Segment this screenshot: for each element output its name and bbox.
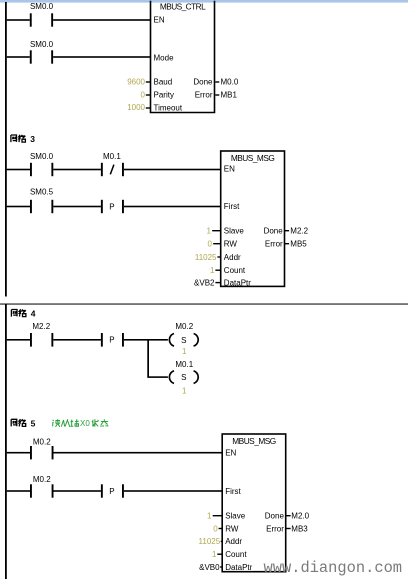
svg-text:SM0.0: SM0.0 [30,2,54,11]
wire rail to M0.2 rung1 [7,452,30,454]
wire rail to SM0.5 [7,206,30,208]
svg-text:M0.0: M0.0 [221,78,239,87]
value 0 on RW [208,240,221,249]
network comment 读从站X0状态 (green) [52,419,108,428]
pin Timeout [154,103,183,112]
wire branch to coil M0.2 [149,339,168,341]
output M2.2 on Done [285,227,309,236]
NC contact M0.1 [101,152,124,176]
svg-text:Slave: Slave [225,512,246,521]
pin Count [224,266,246,275]
wire M0.2 to P [54,490,101,492]
wire rail to SM0.0 contact rung2 [7,56,30,58]
svg-text:MBUS_CTRL: MBUS_CTRL [160,2,206,12]
contact M2.2 [30,322,53,347]
svg-text:M0.2: M0.2 [33,437,51,446]
value 1 on Count [212,550,222,559]
watermark www.diangon.com [264,559,403,577]
pin EN [225,448,236,457]
output M2.0 on Done [286,512,310,521]
pin Done [193,78,213,87]
pin Baud [154,78,173,87]
wire rail to M0.2 rung2 [7,490,30,492]
network label 网络 5 [11,419,35,429]
svg-text:RW: RW [224,240,238,249]
pin DataPtr [225,563,252,572]
output MB3 on Error [286,524,308,533]
top selection strip [0,0,408,3]
svg-text:1: 1 [210,266,215,275]
output MB1 on Error [215,91,237,100]
svg-text:EN: EN [224,165,235,174]
pin RW [224,240,238,249]
wire M0.1 to MBUS_MSG EN [124,169,221,171]
wire P to branch [124,339,148,341]
value 1 below coil M0.2 [182,347,187,356]
pin Mode [154,53,175,62]
svg-text:MBUS_MSG: MBUS_MSG [231,153,275,163]
pin EN [224,165,235,174]
svg-text:M0.2: M0.2 [33,475,51,484]
svg-text:Slave: Slave [224,227,245,236]
value &VB2 on DataPtr [194,278,221,287]
value 9600 on Baud [127,78,150,87]
svg-text:SM0.5: SM0.5 [30,188,54,197]
pin DataPtr [224,278,251,287]
svg-text:11025: 11025 [195,253,217,262]
svg-text:M0.2: M0.2 [175,322,193,331]
svg-text:Addr: Addr [225,537,242,546]
svg-text:1: 1 [212,550,217,559]
svg-text:Mode: Mode [154,53,175,62]
value 1 on Slave [207,512,222,521]
svg-text:First: First [225,487,241,496]
svg-text:M2.2: M2.2 [290,227,308,236]
svg-text:DataPtr: DataPtr [224,278,251,287]
contact M0.2 (rung1, EN) [30,437,54,459]
network label 网络 3 [11,134,35,144]
wire P to MBUS_MSG First [124,490,222,492]
svg-text:1: 1 [182,347,187,356]
svg-text:Timeout: Timeout [154,103,183,112]
svg-text:S: S [181,336,186,345]
pin Error [265,240,283,249]
pin Done [265,512,285,521]
value 1 on Count [210,266,221,275]
value 1 below coil M0.1 [182,387,187,396]
wire rail to M2.2 [7,339,30,341]
svg-text:M0.1: M0.1 [175,360,193,369]
svg-text:www.diangon.com: www.diangon.com [264,559,403,577]
output MB5 on Error [285,240,308,249]
svg-text:Parity: Parity [154,91,174,100]
left power rail (upper screenshot) [5,2,7,297]
pin First [224,202,240,211]
value 0 on Parity [141,91,151,100]
network separator line [0,303,408,304]
wire M2.2 to P [53,339,101,341]
svg-text:5: 5 [31,419,36,429]
svg-text:X0: X0 [80,419,90,428]
svg-text:SM0.0: SM0.0 [30,40,54,49]
pin Done [264,227,284,236]
function block MBUS_MSG (network 3) [221,151,285,286]
wire rail to SM0.0 [7,169,30,171]
wire P to MBUS_MSG First [124,206,221,208]
svg-text:RW: RW [225,524,239,533]
wire contact to MBUS_CTRL EN [53,19,151,21]
left power rail (lower screenshot) [5,304,7,579]
svg-text:1: 1 [207,512,212,521]
svg-text:MB3: MB3 [291,524,308,533]
svg-text:Baud: Baud [154,78,173,87]
svg-text:4: 4 [31,309,36,319]
svg-text:MBUS_MSG: MBUS_MSG [232,436,276,446]
contact SM0.5 [30,188,54,214]
value 1 on Slave [207,227,221,236]
svg-text:EN: EN [154,16,165,25]
function block MBUS_CTRL [151,1,215,113]
value &VB0 on DataPtr [199,563,222,572]
svg-text:0: 0 [141,91,146,100]
wire SM0.0 to M0.1 [53,169,101,171]
function block MBUS_MSG (network 5) [222,434,286,572]
svg-text:DataPtr: DataPtr [225,563,252,572]
svg-text:M0.1: M0.1 [103,152,121,161]
svg-text:P: P [109,487,114,496]
output M0.0 on Done [215,78,239,87]
contact SM0.0 (rung1, EN) [30,2,54,27]
value 11025 on Addr [195,253,221,262]
svg-text:MB1: MB1 [221,91,238,100]
pin RW [225,524,239,533]
svg-text:First: First [224,202,240,211]
svg-text:1: 1 [207,227,212,236]
svg-text:Error: Error [195,91,213,100]
svg-text:3: 3 [30,134,35,144]
svg-text:&VB0: &VB0 [199,563,220,572]
svg-text:&VB2: &VB2 [194,278,215,287]
svg-text:Count: Count [224,266,246,275]
contact SM0.0 [30,152,54,176]
svg-text:Count: Count [225,550,247,559]
coil S M0.1 [169,360,198,383]
contact SM0.0 (rung2, Mode) [30,40,54,63]
svg-text:0: 0 [213,524,218,533]
svg-text:S: S [181,373,186,382]
wire contact to MBUS_CTRL Mode [53,56,151,58]
svg-text:Addr: Addr [224,253,241,262]
svg-text:1: 1 [182,387,187,396]
pin Addr [225,537,242,546]
value 1000 on Timeout [127,103,150,112]
pin Addr [224,253,241,262]
svg-text:0: 0 [208,240,213,249]
pin First [225,487,241,496]
pin EN [154,16,165,25]
wire branch to coil M0.1 [149,376,168,378]
svg-text:9600: 9600 [127,78,145,87]
svg-text:Error: Error [265,240,283,249]
svg-text:M2.2: M2.2 [32,322,50,331]
svg-text:Done: Done [265,512,285,521]
pin Slave [225,512,246,521]
svg-text:M2.0: M2.0 [291,512,309,521]
svg-text:Error: Error [266,524,284,533]
edge contact P [101,333,124,347]
svg-text:Done: Done [193,78,213,87]
branch junction vertical wire [147,339,149,378]
svg-text:11025: 11025 [199,537,221,546]
wire M0.2 to MBUS_MSG EN [54,452,223,454]
edge contact P [101,200,124,213]
pin Count [225,550,247,559]
edge contact P [101,484,124,497]
wire rail to SM0.0 contact rung1 [7,19,30,21]
svg-text:EN: EN [225,448,236,457]
pin Parity [154,91,174,100]
pin Slave [224,227,245,236]
value 11025 on Addr [199,537,223,546]
pin Error [266,524,284,533]
pin Error [195,91,213,100]
coil S M0.2 [169,322,198,346]
svg-text:Done: Done [264,227,284,236]
network label 网络 4 [11,309,35,319]
svg-text:P: P [109,336,114,345]
svg-text:1000: 1000 [127,103,145,112]
wire SM0.5 to P [53,206,101,208]
svg-text:SM0.0: SM0.0 [30,152,54,161]
svg-text:P: P [109,202,114,211]
svg-text:MB5: MB5 [290,240,307,249]
value 0 on RW [213,524,222,533]
contact M0.2 (rung2) [30,475,54,498]
